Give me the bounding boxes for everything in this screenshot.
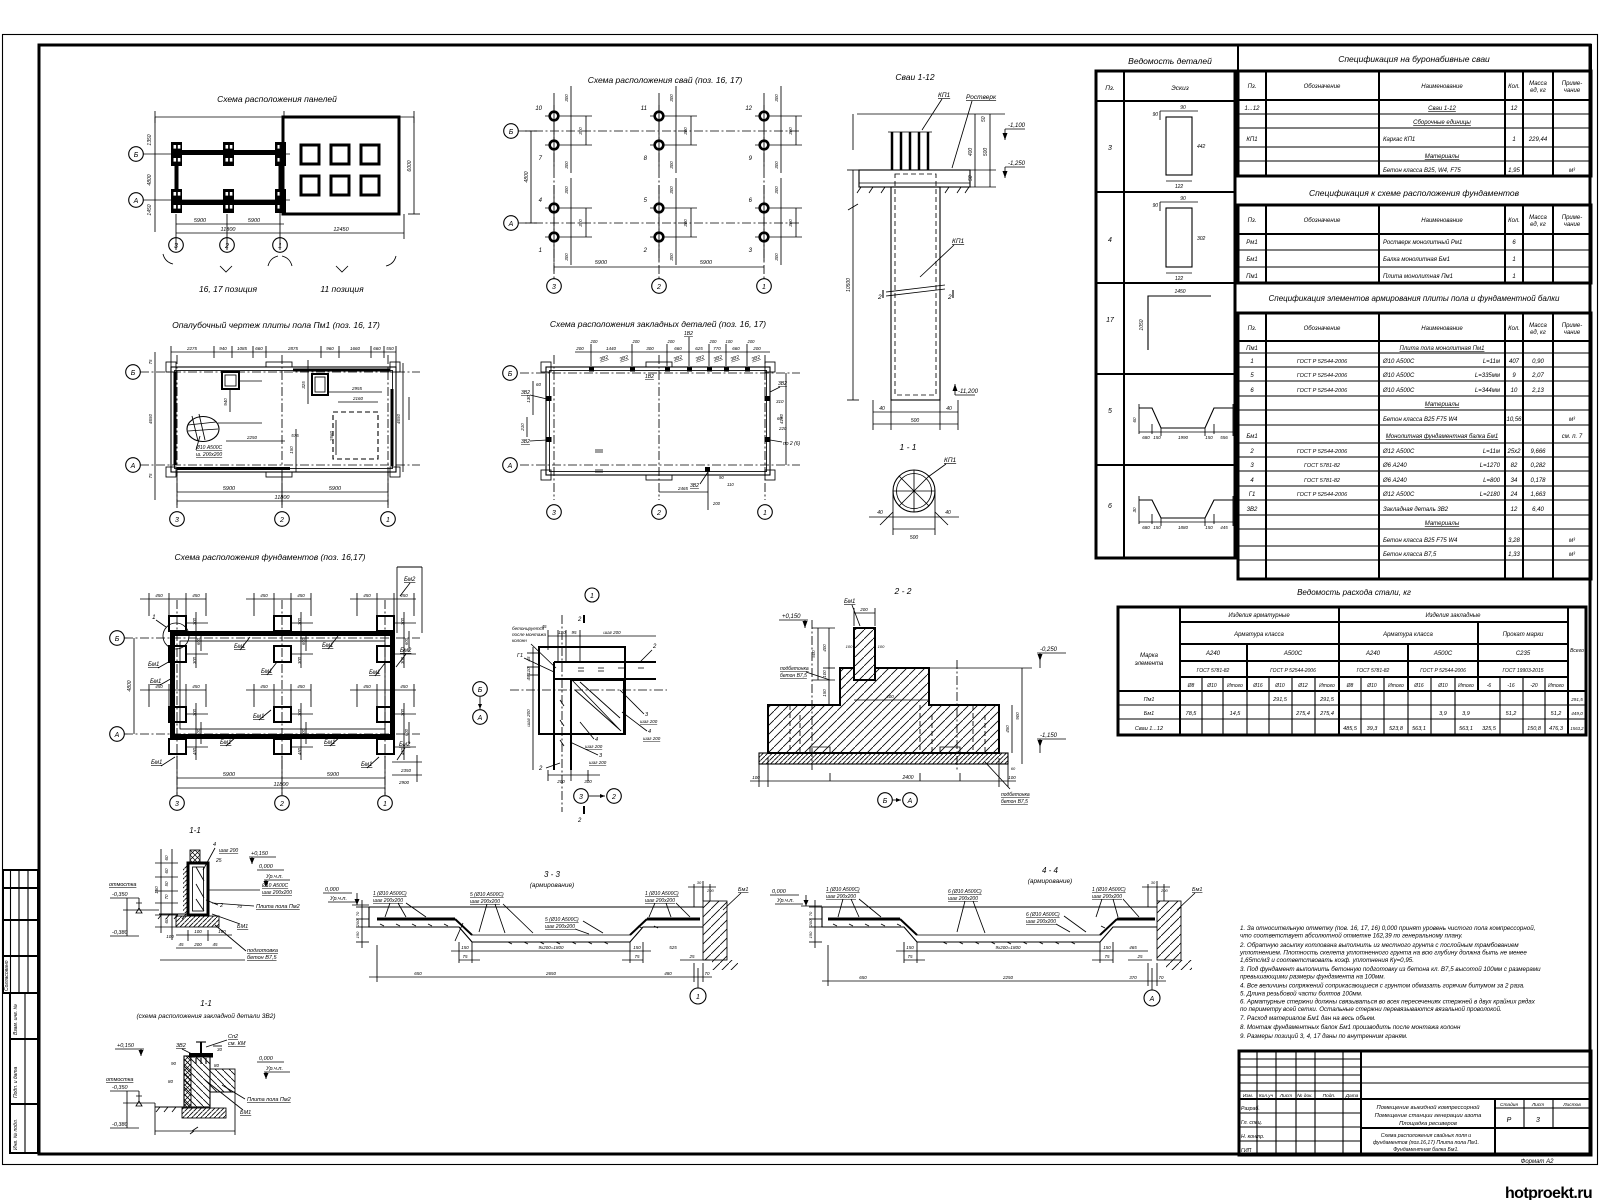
svg-text:1 (Ø10 А500С): 1 (Ø10 А500С) — [373, 891, 407, 897]
svg-text:550: 550 — [386, 346, 394, 351]
svg-text:Бетон класса В25 F75 W4: Бетон класса В25 F75 W4 — [1383, 417, 1458, 423]
svg-text:310: 310 — [776, 399, 784, 404]
svg-text:500: 500 — [811, 650, 816, 658]
svg-text:Бетон класса В25 F75 W4: Бетон класса В25 F75 W4 — [1383, 538, 1458, 544]
svg-text:449,0: 449,0 — [1571, 711, 1583, 716]
corner detail 1: left dims — [517, 647, 554, 770]
svg-text:3: 3 — [175, 517, 179, 524]
svg-text:200: 200 — [709, 339, 718, 344]
embedded details plan: bottom labels — [595, 450, 734, 510]
corner detail 1: bottom dims and leaders — [538, 690, 661, 824]
svg-text:шаг 200: шаг 200 — [526, 709, 531, 727]
svg-text:300: 300 — [564, 161, 569, 169]
svg-text:м³: м³ — [1569, 168, 1576, 174]
svg-text:200: 200 — [712, 501, 721, 506]
pile elevation: label Ростверк — [952, 94, 997, 168]
svg-text:940: 940 — [223, 398, 228, 406]
svg-text:-1,150: -1,150 — [1040, 733, 1058, 739]
svg-text:500: 500 — [911, 418, 920, 424]
svg-text:1: 1 — [590, 593, 594, 600]
svg-text:2250: 2250 — [246, 435, 258, 440]
corner detail 1: axis circles — [473, 682, 488, 725]
section 2-2: level marks — [779, 599, 1066, 753]
embedded details plan: grid axes — [503, 355, 800, 519]
svg-text:Формат А2: Формат А2 — [1521, 1159, 1554, 1165]
svg-text:450: 450 — [297, 593, 305, 598]
svg-text:75: 75 — [1104, 954, 1110, 959]
svg-text:КП1: КП1 — [938, 92, 951, 99]
sketch pos.17 — [1139, 289, 1211, 350]
svg-text:Гл. спец.: Гл. спец. — [1241, 1120, 1262, 1126]
section 3-3: right wall — [703, 881, 738, 970]
svg-text:300: 300 — [669, 253, 674, 261]
svg-text:Схема расположения свайных пол: Схема расположения свайных поля и — [1381, 1132, 1472, 1139]
section 3-3: level mark — [323, 887, 369, 905]
svg-text:450: 450 — [192, 684, 200, 689]
svg-text:770: 770 — [713, 346, 721, 351]
svg-text:450: 450 — [1005, 725, 1010, 733]
svg-text:Бм1: Бм1 — [1192, 887, 1202, 893]
svg-text:Приме-: Приме- — [1562, 215, 1582, 221]
formwork plan: top dimension chain — [171, 346, 396, 370]
svg-text:300: 300 — [774, 253, 779, 261]
svg-text:Итого: Итого — [1319, 683, 1335, 689]
svg-text:1: 1 — [383, 801, 387, 808]
svg-text:-0,250: -0,250 — [1040, 647, 1058, 653]
svg-text:шаг 200: шаг 200 — [603, 630, 621, 635]
svg-text:шаг 200х200: шаг 200х200 — [470, 899, 500, 905]
steel consumption table — [1118, 607, 1586, 735]
formwork plan: openings — [187, 372, 378, 459]
section 2-2: right dims — [1005, 668, 1022, 771]
svg-text:960: 960 — [326, 346, 334, 351]
svg-text:4650: 4650 — [148, 413, 153, 424]
svg-text:L=335мм: L=335мм — [1475, 373, 1500, 379]
svg-text:Закладная деталь 3В2: Закладная деталь 3В2 — [1383, 507, 1449, 513]
pile elevation: left overall dimension — [846, 114, 1005, 400]
svg-text:подбетонка: подбетонка — [1001, 792, 1030, 798]
svg-text:см. КМ: см. КМ — [228, 1041, 246, 1047]
svg-text:1,65тс/м3 и соответствовать ко: 1,65тс/м3 и соответствовать коэф. уплотн… — [1240, 957, 1414, 964]
svg-text:11 позиция: 11 позиция — [320, 284, 364, 294]
svg-text:291,5: 291,5 — [1570, 697, 1583, 702]
svg-text:200: 200 — [1160, 888, 1168, 893]
svg-text:680: 680 — [1142, 525, 1150, 530]
foundation plan: bottom dimensions — [177, 756, 385, 795]
pile cluster at axis (10/7) — [535, 86, 592, 173]
svg-text:60: 60 — [1011, 766, 1016, 771]
svg-text:Итого: Итого — [1548, 683, 1564, 689]
svg-text:150: 150 — [633, 945, 641, 950]
svg-text:по периметру всей сетки. Остал: по периметру всей сетки. Остальные стерж… — [1240, 1006, 1502, 1013]
svg-text:300: 300 — [683, 127, 688, 135]
svg-text:-11,200: -11,200 — [958, 389, 979, 395]
svg-text:Изделия закладные: Изделия закладные — [1425, 613, 1481, 619]
svg-text:2: 2 — [877, 294, 882, 301]
foundation plan: perimeter beam band — [173, 634, 393, 737]
svg-text:40: 40 — [946, 406, 952, 412]
panel scheme: grid line А — [129, 193, 290, 208]
svg-text:275,4: 275,4 — [1295, 711, 1310, 717]
svg-text:Подп. и дата: Подп. и дата — [13, 1066, 19, 1098]
svg-text:2: 2 — [1249, 449, 1254, 455]
svg-text:229,44: 229,44 — [1528, 137, 1548, 143]
svg-text:Пм1: Пм1 — [1246, 274, 1258, 280]
svg-text:2: 2 — [611, 794, 616, 801]
foundation plan: column footings — [169, 616, 394, 754]
svg-text:100: 100 — [752, 775, 760, 780]
svg-text:Лист: Лист — [1279, 1093, 1292, 1099]
foundation plan: Bm1 labels — [148, 636, 385, 768]
svg-text:Ур.ч.п.: Ур.ч.п. — [776, 898, 794, 904]
svg-text:2,07: 2,07 — [1531, 373, 1544, 379]
section 2-2: foundation body — [759, 620, 1032, 770]
svg-text:шаг 200х200: шаг 200х200 — [645, 898, 675, 904]
svg-text:2650: 2650 — [545, 971, 557, 976]
svg-text:450: 450 — [260, 684, 268, 689]
section 4-4: rebar leader labels — [826, 887, 1139, 933]
pile scheme grid: row А — [504, 216, 800, 231]
svg-text:3В2: 3В2 — [521, 439, 530, 445]
foundation plan: left dimension 4800 — [127, 638, 134, 734]
svg-text:Бм1: Бм1 — [844, 599, 855, 605]
svg-text:78,5: 78,5 — [1186, 711, 1198, 717]
svg-text:Материалы: Материалы — [1425, 402, 1460, 408]
svg-text:100: 100 — [878, 644, 885, 649]
svg-text:4650: 4650 — [396, 413, 401, 424]
svg-text:Ø10: Ø10 — [1437, 683, 1448, 689]
svg-text:чание: чание — [1564, 330, 1581, 336]
svg-text:100: 100 — [726, 339, 734, 344]
svg-text:80: 80 — [168, 1079, 174, 1084]
svg-text:300: 300 — [669, 161, 674, 169]
svg-text:1563,2: 1563,2 — [1570, 726, 1584, 731]
svg-text:9х200=1800: 9х200=1800 — [539, 945, 564, 950]
embedded detail 3B2: labels — [106, 1034, 291, 1135]
svg-text:м³: м³ — [1569, 552, 1576, 558]
pile elevation: level mark -11,200 — [953, 384, 979, 395]
panel scheme: bottom dimension lines — [176, 144, 404, 250]
svg-text:45: 45 — [212, 942, 218, 947]
svg-text:45: 45 — [178, 942, 184, 947]
svg-text:4: 4 — [213, 842, 216, 848]
svg-text:Ø10 А500С: Ø10 А500С — [195, 445, 223, 451]
svg-text:0,178: 0,178 — [1530, 478, 1546, 484]
svg-text:600: 600 — [196, 637, 201, 645]
svg-text:3: 3 — [175, 801, 179, 808]
svg-text:Спецификация к схеме расположе: Спецификация к схеме расположения фундам… — [1309, 188, 1520, 198]
svg-text:3 - 3: 3 - 3 — [544, 870, 561, 879]
svg-text:Стадия: Стадия — [1500, 1102, 1518, 1108]
svg-text:30: 30 — [1151, 880, 1156, 885]
svg-text:1,663: 1,663 — [1530, 492, 1546, 498]
svg-text:70: 70 — [355, 911, 360, 916]
svg-text:3,28: 3,28 — [1508, 538, 1520, 544]
svg-text:Дата: Дата — [1345, 1093, 1359, 1099]
svg-text:Н. контр.: Н. контр. — [1241, 1134, 1264, 1140]
svg-text:Кол.: Кол. — [1508, 326, 1520, 332]
svg-text:А500С: А500С — [1433, 651, 1453, 657]
svg-text:-0,380: -0,380 — [112, 930, 129, 936]
svg-text:Плита монолитная Пм1: Плита монолитная Пм1 — [1383, 274, 1453, 280]
svg-text:шаг 200х200: шаг 200х200 — [1026, 919, 1056, 925]
svg-text:5900: 5900 — [700, 260, 713, 266]
svg-text:450: 450 — [363, 684, 371, 689]
svg-text:элемента: элемента — [1135, 661, 1164, 667]
svg-text:Б: Б — [509, 129, 514, 136]
svg-text:25: 25 — [1136, 954, 1143, 959]
svg-text:Ø12: Ø12 — [1297, 683, 1308, 689]
svg-text:Всего: Всего — [1570, 648, 1584, 654]
svg-text:1: 1 — [278, 243, 282, 250]
svg-text:Пз.: Пз. — [1248, 84, 1257, 90]
svg-text:3: 3 — [174, 243, 178, 250]
svg-text:Бетон класса В7,5: Бетон класса В7,5 — [1383, 552, 1437, 558]
svg-text:1050: 1050 — [1139, 319, 1145, 330]
svg-text:-16: -16 — [1507, 683, 1514, 689]
svg-text:11: 11 — [641, 106, 647, 112]
svg-text:4 - 4: 4 - 4 — [1042, 866, 1059, 875]
pile elevation: level mark -1,250 — [1003, 161, 1026, 178]
svg-text:150: 150 — [1153, 525, 1161, 530]
svg-text:hotproekt.ru: hotproekt.ru — [1505, 1185, 1592, 1200]
svg-text:5: 5 — [1108, 408, 1112, 415]
svg-text:6,40: 6,40 — [1532, 507, 1544, 513]
svg-text:бетонируется: бетонируется — [512, 626, 545, 631]
beam detail 1-1: left level marks — [109, 882, 159, 936]
svg-text:1: 1 — [1512, 274, 1515, 280]
svg-text:14,5: 14,5 — [1230, 711, 1242, 717]
svg-text:500: 500 — [910, 535, 919, 541]
svg-text:Пз.: Пз. — [1105, 85, 1115, 92]
svg-text:9х200=1800: 9х200=1800 — [996, 945, 1021, 950]
formwork plan: bottom dimensions — [177, 472, 388, 505]
svg-text:Сп2: Сп2 — [228, 1034, 238, 1040]
svg-text:300: 300 — [669, 186, 674, 194]
svg-text:2: 2 — [279, 801, 284, 808]
svg-text:ГОСТ 5781-82: ГОСТ 5781-82 — [1197, 668, 1230, 674]
svg-text:25: 25 — [215, 858, 222, 864]
svg-text:-1,100: -1,100 — [1008, 123, 1026, 129]
corner detail 1: outline — [510, 615, 667, 812]
svg-text:650: 650 — [859, 975, 867, 980]
svg-text:442: 442 — [1197, 144, 1206, 150]
svg-text:1-1: 1-1 — [189, 826, 201, 835]
svg-text:2,13: 2,13 — [1531, 388, 1544, 394]
pile scheme: axis circles 3 2 1 — [547, 279, 772, 294]
svg-text:Фундаментная балка Бм1.: Фундаментная балка Бм1. — [1393, 1147, 1459, 1153]
svg-text:Лист: Лист — [1531, 1102, 1544, 1108]
svg-text:450: 450 — [155, 593, 163, 598]
svg-text:150: 150 — [906, 945, 914, 950]
svg-text:шаг 200: шаг 200 — [585, 744, 603, 749]
svg-text:400: 400 — [886, 694, 894, 699]
section 4-4: level mark — [770, 889, 822, 906]
svg-text:75: 75 — [148, 359, 153, 365]
svg-text:5900: 5900 — [327, 772, 340, 778]
svg-text:2: 2 — [656, 284, 661, 291]
svg-text:Материалы: Материалы — [1425, 521, 1460, 527]
svg-text:что соответствует абсолютной о: что соответствует абсолютной отметке 162… — [1240, 933, 1463, 940]
svg-text:Помещение станции генерации аз: Помещение станции генерации азота — [1375, 1113, 1482, 1119]
pile cluster at axis (12/9) — [745, 86, 802, 173]
svg-text:2: 2 — [538, 766, 543, 772]
svg-text:L=344мм: L=344мм — [1475, 388, 1500, 394]
svg-text:485,5: 485,5 — [1343, 726, 1358, 732]
panel scheme: pos 16,17 column blocks — [171, 142, 286, 213]
svg-text:556: 556 — [1220, 435, 1228, 440]
svg-text:чание: чание — [1564, 88, 1581, 94]
svg-text:Наименование: Наименование — [1421, 218, 1463, 224]
svg-text:ГОСТ Р 52544-2006: ГОСТ Р 52544-2006 — [1297, 359, 1348, 365]
svg-text:500: 500 — [983, 148, 989, 157]
svg-text:4800: 4800 — [127, 680, 133, 691]
section 4-4: right top dims — [1142, 880, 1202, 910]
svg-text:Пз.: Пз. — [1248, 218, 1257, 224]
svg-text:уплотнением. Плотность скелета: уплотнением. Плотность скелета уплотненн… — [1239, 950, 1527, 957]
svg-text:+0,150: +0,150 — [782, 614, 801, 620]
svg-text:1450: 1450 — [1174, 289, 1185, 295]
svg-text:523,8: 523,8 — [1389, 726, 1404, 732]
svg-text:шаг 200х200: шаг 200х200 — [373, 898, 403, 904]
svg-text:БМ1: БМ1 — [240, 1110, 251, 1116]
pile scheme: bottom dimension line — [550, 260, 764, 271]
svg-text:Балка монолитная Бм1: Балка монолитная Бм1 — [1383, 257, 1450, 263]
pile scheme: left dim 4800 — [524, 131, 537, 223]
svg-text:2900: 2900 — [398, 780, 410, 785]
svg-text:95: 95 — [571, 630, 577, 635]
svg-text:А500С: А500С — [1283, 651, 1303, 657]
svg-text:3В2: 3В2 — [1247, 507, 1258, 513]
svg-text:200: 200 — [632, 339, 641, 344]
formwork plan: internal dimensions — [218, 360, 382, 472]
svg-text:10: 10 — [1511, 388, 1518, 394]
svg-text:75: 75 — [148, 473, 153, 479]
svg-text:№ док.: № док. — [1297, 1093, 1312, 1099]
svg-text:ГОСТ 19903-2015: ГОСТ 19903-2015 — [1502, 668, 1543, 674]
svg-text:2400: 2400 — [901, 775, 913, 781]
svg-text:м³: м³ — [1569, 538, 1576, 544]
svg-text:Наименование: Наименование — [1421, 84, 1463, 90]
svg-text:Ø6 А240: Ø6 А240 — [1382, 463, 1407, 469]
svg-text:940: 940 — [219, 346, 227, 351]
svg-text:ш. 200х200: ш. 200х200 — [196, 452, 222, 458]
formwork plan: grid axes — [126, 355, 420, 526]
svg-text:325: 325 — [301, 381, 306, 389]
svg-text:200: 200 — [575, 346, 584, 351]
svg-text:отмостка: отмостка — [106, 1077, 133, 1083]
pile cluster at axis (6/3) — [749, 178, 802, 265]
svg-text:1В2: 1В2 — [684, 331, 693, 337]
svg-text:3В2: 3В2 — [176, 1043, 186, 1049]
svg-text:150: 150 — [1205, 435, 1213, 440]
svg-text:Ур.ч.п.: Ур.ч.п. — [265, 1066, 283, 1072]
svg-text:шаг 200х200: шаг 200х200 — [948, 896, 978, 902]
svg-text:Плита пола Пм2: Плита пола Пм2 — [256, 904, 300, 910]
svg-text:0,282: 0,282 — [1530, 463, 1546, 469]
svg-text:291,5: 291,5 — [1319, 697, 1335, 703]
pile elevation: level mark -1,100 — [1003, 123, 1026, 140]
svg-text:L=1270: L=1270 — [1480, 463, 1501, 469]
svg-text:11800: 11800 — [275, 495, 291, 501]
svg-text:325,5: 325,5 — [1482, 726, 1497, 732]
foundation plan: grid axes — [110, 600, 420, 810]
svg-text:300: 300 — [564, 94, 569, 102]
specification table: foundation layout — [1238, 188, 1591, 283]
formwork plan: leader rebar label — [195, 436, 223, 458]
svg-text:110: 110 — [727, 482, 734, 487]
svg-text:0,000: 0,000 — [325, 887, 340, 893]
svg-text:ГОСТ 5781-82: ГОСТ 5781-82 — [1304, 478, 1340, 484]
pile section 1-1 — [869, 457, 959, 541]
svg-text:100: 100 — [194, 929, 202, 934]
svg-text:шаг 200: шаг 200 — [219, 848, 238, 854]
svg-text:А: А — [1149, 996, 1155, 1003]
svg-text:Ур.ч.п.: Ур.ч.п. — [265, 874, 283, 880]
svg-text:2955: 2955 — [351, 386, 363, 391]
svg-text:(армирование): (армирование) — [530, 882, 574, 889]
svg-text:1: 1 — [539, 248, 542, 254]
svg-text:после монтажа: после монтажа — [512, 632, 547, 637]
svg-text:превышающими размеры фундамент: превышающими размеры фундамента на 100мм… — [1240, 974, 1385, 981]
svg-text:1660: 1660 — [350, 346, 361, 351]
svg-text:L=2180: L=2180 — [1480, 492, 1501, 498]
svg-text:Бм2: Бм2 — [400, 648, 412, 654]
svg-text:130: 130 — [526, 395, 531, 403]
svg-text:660: 660 — [732, 346, 740, 351]
svg-text:Обозначение: Обозначение — [1304, 326, 1341, 332]
svg-text:Г1: Г1 — [517, 653, 523, 659]
sketch pos.3 — [1152, 105, 1205, 190]
svg-text:А: А — [130, 463, 136, 470]
svg-text:А: А — [133, 198, 139, 205]
svg-text:+0,150: +0,150 — [251, 851, 269, 857]
section 4-4: left dims — [808, 900, 822, 948]
svg-text:Каркас КП1: Каркас КП1 — [1383, 137, 1415, 143]
svg-text:шаг 200: шаг 200 — [589, 760, 607, 765]
svg-text:0,000: 0,000 — [772, 889, 787, 895]
svg-text:300: 300 — [578, 219, 583, 227]
svg-text:5900: 5900 — [329, 486, 342, 492]
svg-text:Ø8: Ø8 — [1346, 683, 1354, 689]
svg-text:200: 200 — [752, 346, 761, 351]
svg-text:60: 60 — [164, 855, 169, 861]
svg-text:200: 200 — [556, 779, 565, 784]
svg-text:75: 75 — [907, 954, 913, 959]
svg-text:Ø10: Ø10 — [1274, 683, 1285, 689]
panel scheme: top dimension line — [155, 111, 414, 123]
svg-text:Плита пола монолитная Пм1: Плита пола монолитная Пм1 — [1400, 346, 1485, 352]
svg-text:шаг 200х200: шаг 200х200 — [545, 924, 575, 930]
section 3-3: slab profile — [369, 907, 703, 944]
svg-text:А240: А240 — [1205, 651, 1221, 657]
svg-text:Материалы: Материалы — [1425, 154, 1460, 160]
svg-text:2: 2 — [279, 517, 284, 524]
pile scheme grid: row Б — [504, 124, 800, 139]
svg-text:150: 150 — [154, 886, 159, 894]
svg-text:Ø10: Ø10 — [1206, 683, 1217, 689]
svg-text:шаг 200: шаг 200 — [643, 736, 661, 741]
svg-text:Взам. инв. №: Взам. инв. № — [13, 1003, 19, 1035]
beam detail 1-1: right labels — [203, 842, 300, 961]
svg-text:А: А — [507, 463, 513, 470]
svg-text:Б: Б — [478, 687, 483, 694]
foundation plan: detail 1 callout — [152, 614, 189, 649]
svg-text:-0,350: -0,350 — [112, 892, 129, 898]
svg-text:Спецификация элементов армиров: Спецификация элементов армирования плиты… — [1269, 294, 1560, 303]
svg-text:70: 70 — [1158, 975, 1164, 980]
section 3-3: right top dims — [688, 880, 748, 910]
